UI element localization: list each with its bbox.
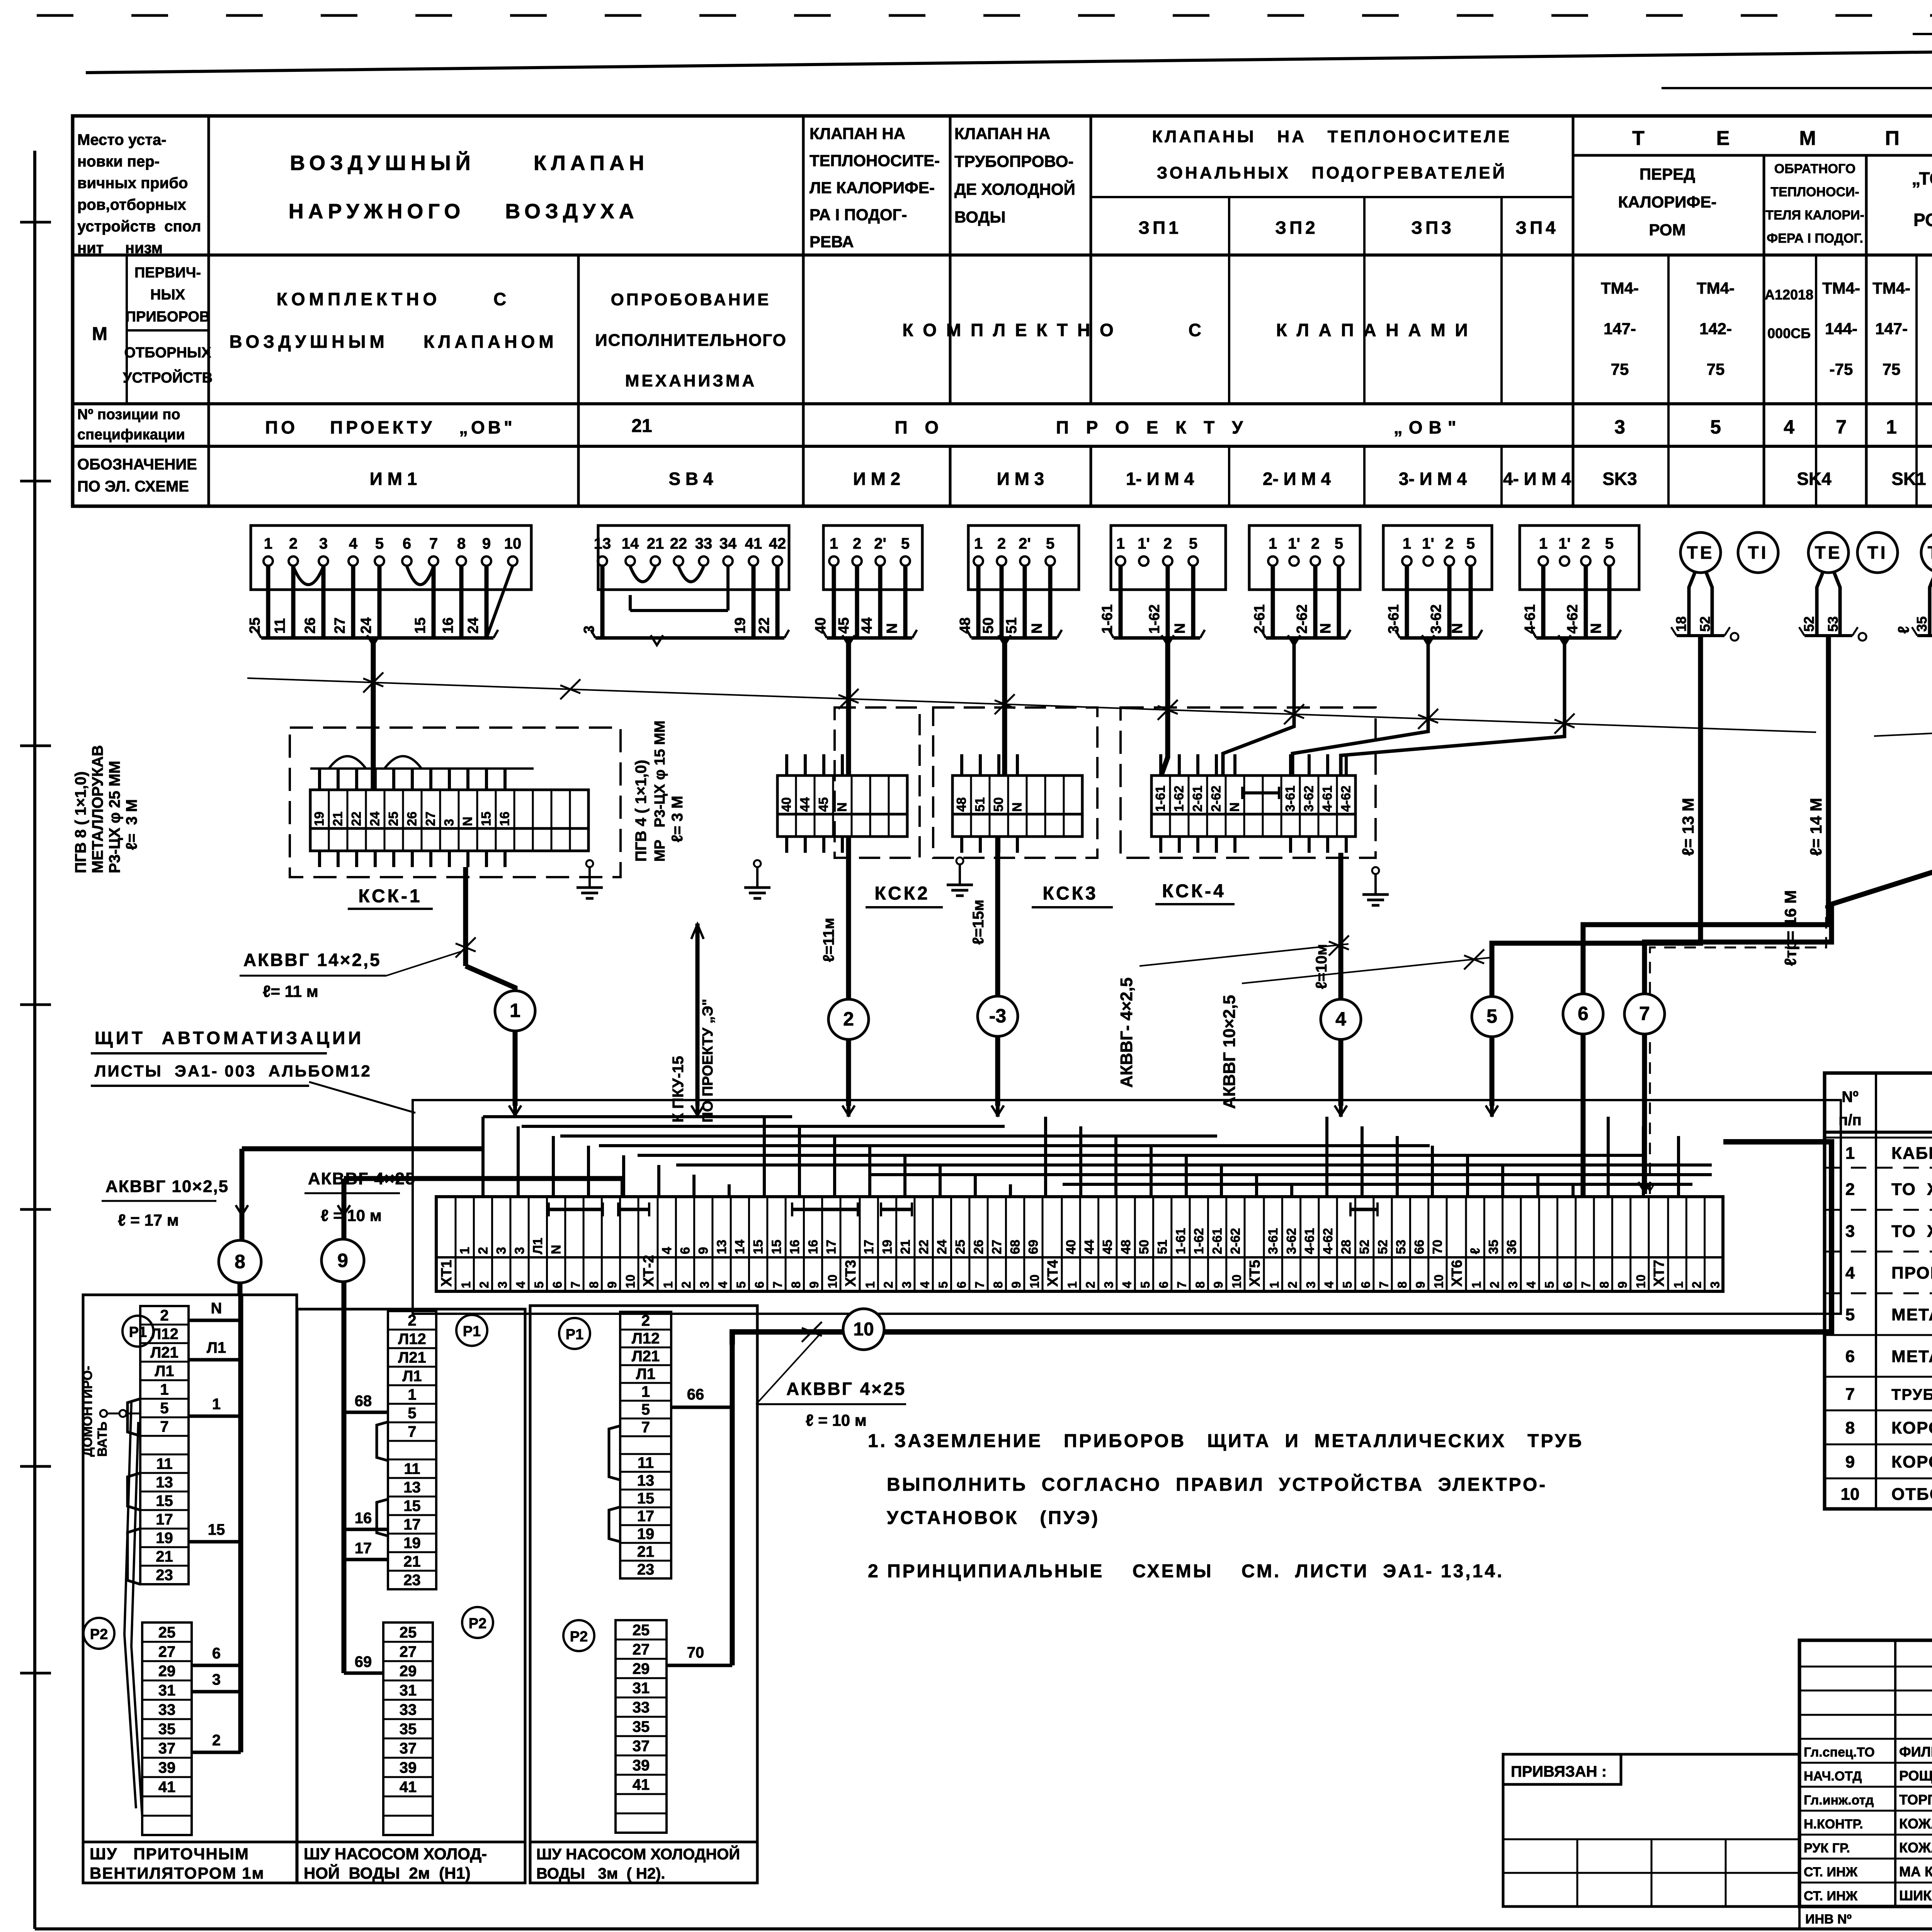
svg-text:9: 9	[605, 1281, 619, 1288]
svg-text:1: 1	[830, 535, 838, 552]
svg-text:16: 16	[498, 811, 512, 826]
cabinet2 upper terminal strip	[388, 1311, 436, 1589]
svg-text:ПРИБОРОВ: ПРИБОРОВ	[126, 309, 210, 325]
inventory number label	[1799, 1906, 1932, 1929]
svg-text:5: 5	[408, 1405, 416, 1422]
cable circle 3	[978, 996, 1018, 1036]
svg-text:2: 2	[679, 1281, 693, 1288]
svg-text:39: 39	[400, 1759, 417, 1776]
svg-text:3- И М 4: 3- И М 4	[1399, 469, 1467, 489]
svg-text:40: 40	[779, 797, 794, 812]
svg-text:МЕТАЛЛОРУКАВ ТУ22 2173-71 ,: МЕТАЛЛОРУКАВ ТУ22 2173-71 ,	[1891, 1347, 1932, 1366]
svg-text:ПО ЭЛ. СХЕМЕ: ПО ЭЛ. СХЕМЕ	[77, 478, 189, 495]
svg-text:1. ЗАЗЕМЛЕНИЕ ПРИБОРОВ ЩИТ: 1. ЗАЗЕМЛЕНИЕ ПРИБОРОВ ЩИТА И МЕТАЛЛИЧЕС…	[868, 1431, 1583, 1451]
svg-text:10: 10	[1432, 1274, 1446, 1288]
svg-text:142-: 142-	[1699, 320, 1732, 338]
svg-text:10: 10	[624, 1274, 638, 1288]
svg-text:М: М	[92, 324, 107, 344]
svg-text:ℓ= 3 М: ℓ= 3 М	[123, 799, 140, 850]
svg-text:ВОДЫ 3м ( Н2).: ВОДЫ 3м ( Н2).	[536, 1865, 665, 1882]
svg-text:66: 66	[1412, 1240, 1427, 1254]
cable 2 drop (l=11m)	[820, 837, 849, 1106]
svg-text:ТМ4-: ТМ4-	[1697, 279, 1735, 297]
instrument circles TE TI row	[1680, 532, 1932, 576]
ground at КСК2 left	[754, 860, 761, 867]
cable circle 6	[1563, 994, 1603, 1034]
terminal box 3 (valve ИМ2)	[813, 526, 922, 645]
svg-text:1: 1	[510, 1000, 520, 1021]
svg-text:7: 7	[429, 535, 438, 552]
svg-text:2: 2	[1083, 1281, 1097, 1288]
svg-text:22: 22	[756, 617, 772, 634]
notes text	[868, 1431, 1583, 1582]
svg-text:8: 8	[457, 535, 466, 552]
svg-text:1: 1	[160, 1381, 168, 1398]
cabinet1 lower terminal strip	[142, 1622, 192, 1835]
cabinet3 upper terminal strip	[620, 1312, 671, 1578]
svg-text:1: 1	[1403, 535, 1411, 552]
svg-text:15: 15	[751, 1240, 766, 1254]
svg-text:44: 44	[798, 797, 813, 812]
svg-text:2': 2'	[1019, 535, 1031, 552]
svg-text:5: 5	[1543, 1281, 1556, 1288]
svg-text:Р2: Р2	[469, 1616, 486, 1632]
svg-text:5: 5	[1486, 1005, 1497, 1027]
svg-text:3: 3	[1845, 1222, 1855, 1241]
svg-text:39: 39	[158, 1759, 176, 1776]
svg-text:13: 13	[156, 1474, 173, 1491]
svg-text:TE: TE	[1687, 543, 1714, 563]
svg-text:9: 9	[1413, 1281, 1427, 1288]
cabinet ШУ-2 (cold water pump 2м Н1)	[297, 1309, 525, 1883]
svg-text:41: 41	[633, 1776, 650, 1793]
svg-text:17: 17	[403, 1516, 421, 1533]
svg-text:2-61: 2-61	[1252, 604, 1268, 634]
svg-text:Л21: Л21	[398, 1349, 426, 1366]
svg-text:3-62: 3-62	[1428, 604, 1444, 634]
svg-text:-3: -3	[989, 1005, 1006, 1027]
svg-text:31: 31	[633, 1680, 650, 1697]
privyazan box	[1503, 1754, 1799, 1906]
svg-text:N: N	[549, 1245, 564, 1254]
svg-text:5: 5	[734, 1281, 748, 1288]
svg-text:7: 7	[1845, 1385, 1855, 1404]
svg-text:35: 35	[158, 1721, 176, 1738]
svg-text:66: 66	[687, 1386, 704, 1403]
svg-text:17: 17	[637, 1508, 655, 1525]
title block frame	[1799, 1640, 1932, 1906]
svg-text:3: 3	[442, 819, 457, 826]
cabinet3 jumper hooks	[609, 1426, 620, 1542]
svg-text:ℓ=15м: ℓ=15м	[970, 900, 987, 945]
svg-text:4: 4	[716, 1281, 730, 1288]
svg-text:13: 13	[403, 1479, 421, 1496]
svg-text:3: 3	[1102, 1281, 1116, 1288]
svg-text:ОПРОБОВАНИЕ: ОПРОБОВАНИЕ	[611, 290, 771, 309]
svg-text:Л12: Л12	[150, 1325, 179, 1342]
svg-text:2: 2	[1582, 535, 1590, 552]
svg-text:КСК3: КСК3	[1043, 883, 1098, 904]
svg-text:2-61: 2-61	[1190, 786, 1205, 812]
svg-text:16: 16	[440, 617, 456, 634]
svg-text:51: 51	[973, 797, 988, 812]
svg-text:КОЖАРИНОВА: КОЖАРИНОВА	[1899, 1840, 1932, 1855]
svg-text:35: 35	[1914, 616, 1930, 632]
svg-text:НЫХ: НЫХ	[150, 287, 185, 303]
svg-text:5: 5	[901, 535, 910, 552]
top table header texts	[77, 124, 1932, 257]
svg-text:11: 11	[272, 618, 288, 634]
svg-text:Место уста-: Место уста-	[77, 131, 167, 148]
cable 3 drop (l=15m)	[970, 837, 998, 1106]
svg-text:-75: -75	[1830, 360, 1853, 378]
TE sensor wire pairs with labels	[1671, 572, 1932, 641]
svg-text:31: 31	[400, 1682, 417, 1699]
terminal box 4 (valve ИМ3)	[957, 526, 1079, 645]
svg-text:1: 1	[1845, 1144, 1855, 1163]
svg-text:ХТ3: ХТ3	[843, 1260, 859, 1287]
svg-text:ИНВ Nº: ИНВ Nº	[1805, 1912, 1852, 1927]
svg-text:РОЩИН: РОЩИН	[1899, 1768, 1932, 1784]
svg-text:25: 25	[386, 811, 401, 826]
svg-text:TE: TE	[1815, 543, 1842, 563]
cabinet2 relay P2	[462, 1607, 493, 1638]
svg-text:52: 52	[1357, 1240, 1372, 1254]
svg-text:9: 9	[1616, 1281, 1629, 1288]
svg-text:ВОДЫ: ВОДЫ	[954, 208, 1005, 226]
svg-text:УСТАНОВОК (ПУЭ): УСТАНОВОК (ПУЭ)	[887, 1508, 1100, 1528]
svg-text:9: 9	[696, 1247, 711, 1254]
svg-text:Гл.инж.отд: Гл.инж.отд	[1804, 1793, 1874, 1808]
svg-text:3-61: 3-61	[1386, 604, 1402, 634]
svg-text:ШУ НАСОСОМ ХОЛОДНОЙ: ШУ НАСОСОМ ХОЛОДНОЙ	[536, 1845, 740, 1863]
svg-text:ℓ=10м: ℓ=10м	[1313, 944, 1330, 989]
svg-text:1-62: 1-62	[1172, 786, 1187, 812]
svg-text:4-62: 4-62	[1339, 786, 1354, 812]
svg-text:ДОМОНТИРО-: ДОМОНТИРО-	[80, 1366, 95, 1457]
svg-text:6: 6	[678, 1247, 692, 1254]
junction box КСК-4	[1121, 638, 1565, 904]
svg-text:27: 27	[332, 617, 348, 634]
svg-text:21: 21	[647, 535, 664, 552]
svg-text:МР Р3-ЦХ φ 15 ММ: МР Р3-ЦХ φ 15 ММ	[652, 721, 668, 862]
svg-text:TE: TE	[1928, 543, 1932, 563]
svg-text:5: 5	[1335, 535, 1343, 552]
cabinet2 jumper hooks	[377, 1422, 388, 1536]
svg-text:9: 9	[1845, 1452, 1855, 1471]
junction box КСК3	[933, 638, 1113, 907]
svg-text:ЗП3: ЗП3	[1411, 218, 1454, 238]
svg-text:8: 8	[1395, 1281, 1409, 1288]
svg-text:33: 33	[633, 1699, 650, 1716]
svg-text:000СБ: 000СБ	[1767, 325, 1811, 341]
svg-text:АКВВГ 4×25: АКВВГ 4×25	[786, 1379, 906, 1399]
svg-text:10: 10	[1028, 1274, 1042, 1288]
svg-text:2: 2	[1845, 1180, 1855, 1199]
svg-text:N: N	[884, 623, 900, 634]
svg-text:ПО ПРОЕКТУ „Э": ПО ПРОЕКТУ „Э"	[700, 999, 716, 1122]
cable circle 9	[321, 1239, 364, 1282]
svg-text:ВОЗДУШНЫМ КЛАПАНОМ: ВОЗДУШНЫМ КЛАПАНОМ	[229, 332, 557, 352]
svg-text:50: 50	[992, 797, 1006, 812]
svg-text:23: 23	[403, 1571, 421, 1588]
svg-text:2: 2	[476, 1247, 490, 1254]
svg-text:8: 8	[789, 1281, 803, 1288]
svg-text:35: 35	[1486, 1240, 1501, 1254]
svg-text:П О П Р О Е К Т У: П О П Р О Е К Т У „ОВ"	[895, 417, 1462, 437]
svg-text:7: 7	[569, 1281, 583, 1288]
svg-text:19: 19	[880, 1240, 895, 1254]
svg-text:69: 69	[355, 1653, 372, 1670]
svg-text:14: 14	[733, 1240, 747, 1254]
svg-text:48: 48	[957, 617, 973, 634]
svg-text:ПРОВОД МЕДНЫЙ ГОСТ 6323-: ПРОВОД МЕДНЫЙ ГОСТ 6323-79,	[1891, 1263, 1932, 1282]
svg-text:ОБРАТНОГО: ОБРАТНОГО	[1774, 162, 1855, 176]
svg-text:устройств спол: устройств спол	[77, 218, 201, 235]
svg-text:51: 51	[1155, 1240, 1170, 1254]
cabinet1 riser and taps	[189, 1283, 241, 1752]
svg-text:РЕВА: РЕВА	[810, 233, 854, 251]
svg-text:8: 8	[587, 1281, 601, 1288]
svg-text:2: 2	[881, 1281, 895, 1288]
wire to ПКУ-15	[670, 923, 716, 1122]
svg-text:5: 5	[1605, 535, 1614, 552]
svg-text:N: N	[835, 802, 850, 812]
svg-text:75: 75	[1707, 360, 1725, 378]
svg-text:7: 7	[1175, 1281, 1189, 1288]
cabinet ШУ-3 (cold water pump 3м Н2)	[530, 1306, 757, 1883]
cabinet1 relay P1	[122, 1316, 153, 1347]
svg-text:13: 13	[637, 1472, 655, 1489]
svg-text:КЛАПАНЫ НА ТЕПЛОНОСИТЕЛЕ: КЛАПАНЫ НА ТЕПЛОНОСИТЕЛЕ	[1152, 127, 1512, 146]
svg-text:5: 5	[1340, 1281, 1354, 1288]
svg-text:6: 6	[1845, 1347, 1855, 1366]
svg-text:29: 29	[633, 1660, 650, 1677]
svg-text:33: 33	[158, 1701, 176, 1718]
svg-text:15: 15	[156, 1492, 173, 1509]
svg-text:39: 39	[633, 1757, 650, 1774]
svg-text:21: 21	[403, 1553, 421, 1570]
svg-text:ТМ4-: ТМ4-	[1601, 279, 1639, 297]
svg-text:11: 11	[638, 1454, 654, 1471]
svg-text:10: 10	[1841, 1485, 1860, 1504]
svg-text:спецификации: спецификации	[77, 427, 185, 443]
svg-text:7: 7	[771, 1281, 785, 1288]
svg-text:7: 7	[973, 1281, 987, 1288]
svg-text:N: N	[1010, 802, 1025, 812]
svg-text:новки пер-: новки пер-	[77, 153, 160, 170]
svg-text:Е: Е	[1716, 127, 1730, 150]
svg-text:2: 2	[212, 1732, 221, 1749]
svg-text:18: 18	[1673, 616, 1689, 632]
svg-text:2: 2	[408, 1312, 416, 1329]
svg-text:1': 1'	[1288, 535, 1300, 552]
cable circle 4	[1321, 999, 1361, 1039]
svg-text:1: 1	[1469, 1281, 1483, 1288]
svg-text:ТЕЛЯ КАЛОРИ-: ТЕЛЯ КАЛОРИ-	[1765, 208, 1864, 223]
svg-text:27: 27	[990, 1240, 1004, 1254]
svg-text:2- И М 4: 2- И М 4	[1263, 469, 1331, 489]
svg-text:70: 70	[687, 1644, 704, 1661]
svg-text:ХТ7: ХТ7	[1651, 1260, 1667, 1287]
svg-text:25: 25	[633, 1622, 650, 1639]
svg-text:ВОЗДУХА: ВОЗДУХА	[505, 200, 638, 223]
svg-text:Nº: Nº	[1842, 1088, 1859, 1105]
svg-text:ВЕНТИЛЯТОРОМ 1м: ВЕНТИЛЯТОРОМ 1м	[90, 1864, 265, 1882]
svg-text:N: N	[1029, 623, 1045, 634]
svg-text:нит низм: нит низм	[77, 240, 163, 257]
svg-text:8: 8	[1845, 1418, 1855, 1437]
svg-text:ХТ4: ХТ4	[1045, 1260, 1061, 1287]
cable 7 run (TE ltr=16m with pipe)	[1638, 636, 1932, 1194]
svg-text:1: 1	[457, 1247, 472, 1254]
cable circle 1	[495, 991, 535, 1031]
svg-text:3-61: 3-61	[1283, 786, 1298, 812]
svg-text:9: 9	[337, 1250, 348, 1271]
cabinet3 lower terminal strip	[616, 1620, 667, 1833]
svg-text:ℓ = 10 м: ℓ = 10 м	[321, 1206, 382, 1225]
svg-text:РОМ: РОМ	[1649, 221, 1685, 239]
svg-text:29: 29	[400, 1663, 417, 1680]
svg-text:1: 1	[661, 1281, 675, 1288]
svg-text:ЩИТ АВТОМАТИЗАЦИИ: ЩИТ АВТОМАТИЗАЦИИ	[95, 1028, 364, 1048]
svg-text:КОРОБКА СОЕДИНИТЕЛЬНАЯ: КОРОБКА СОЕДИНИТЕЛЬНАЯ	[1891, 1452, 1932, 1471]
svg-text:52: 52	[1801, 616, 1817, 632]
svg-text:5: 5	[1710, 416, 1721, 438]
svg-text:РОСЫ": РОСЫ"	[1913, 210, 1932, 230]
svg-text:N: N	[1318, 623, 1334, 634]
svg-text:6: 6	[403, 535, 411, 552]
svg-text:9: 9	[482, 535, 491, 552]
svg-text:68: 68	[355, 1393, 372, 1410]
svg-text:Л1: Л1	[531, 1238, 545, 1254]
svg-text:52: 52	[1376, 1240, 1390, 1254]
top table row 2 texts	[92, 265, 1932, 390]
cabinet2 relay P1	[456, 1315, 487, 1346]
svg-text:ЛЕ КАЛОРИФЕ-: ЛЕ КАЛОРИФЕ-	[810, 179, 935, 197]
svg-text:7: 7	[1836, 416, 1847, 438]
svg-text:11: 11	[404, 1460, 420, 1477]
terminal box 2	[581, 526, 789, 645]
panel terminal strip XT1-XT7	[436, 1197, 1723, 1291]
svg-text:Nº позиции по: Nº позиции по	[77, 406, 180, 423]
svg-text:7: 7	[160, 1418, 168, 1435]
svg-text:5: 5	[936, 1281, 950, 1288]
svg-text:4: 4	[1784, 416, 1794, 438]
svg-text:2 ПРИНЦИПИАЛЬНЫЕ СХЕМЫ С: 2 ПРИНЦИПИАЛЬНЫЕ СХЕМЫ СМ. ЛИСТИ ЭА1- 13…	[868, 1561, 1504, 1582]
svg-text:НОЙ ВОДЫ 2м (Н1): НОЙ ВОДЫ 2м (Н1)	[304, 1864, 471, 1882]
svg-text:ℓ: ℓ	[1895, 626, 1912, 634]
svg-text:41: 41	[400, 1779, 417, 1796]
svg-text:ℓ= 14 М: ℓ= 14 М	[1807, 798, 1825, 856]
svg-text:НАРУЖНОГО: НАРУЖНОГО	[289, 200, 465, 223]
cabinet1 demontage note	[80, 1366, 140, 1457]
cable 4 drop (l=10m)	[1313, 853, 1341, 1106]
svg-text:33: 33	[400, 1701, 417, 1718]
svg-text:5: 5	[641, 1401, 650, 1418]
svg-text:ЗОНАЛЬНЫХ ПОДОГРЕВАТЕЛЕЙ: ЗОНАЛЬНЫХ ПОДОГРЕВАТЕЛЕЙ	[1157, 163, 1507, 182]
svg-text:6: 6	[954, 1281, 968, 1288]
svg-text:ℓ= 3 М: ℓ= 3 М	[669, 796, 686, 842]
svg-text:9: 9	[1009, 1281, 1023, 1288]
ground at КСК3 left	[956, 857, 963, 864]
svg-text:2: 2	[843, 1008, 854, 1030]
cable circle 10	[843, 1309, 884, 1350]
cable 9 run (АКВВГ 4х25)	[304, 1169, 622, 1239]
svg-text:19: 19	[732, 617, 748, 634]
svg-text:2: 2	[1311, 535, 1320, 552]
cabinet3 riser and taps	[667, 1345, 732, 1665]
svg-text:2-62: 2-62	[1209, 786, 1224, 812]
svg-text:2: 2	[1445, 535, 1454, 552]
svg-text:КОРОБКА СОЕДИНИТЕЛЬНАЯ: КОРОБКА СОЕДИНИТЕЛЬНАЯ	[1891, 1418, 1932, 1437]
svg-text:24: 24	[368, 811, 383, 826]
svg-text:4: 4	[1322, 1281, 1336, 1288]
svg-text:8: 8	[991, 1281, 1005, 1288]
svg-text:ТЕПЛОНОСИ-: ТЕПЛОНОСИ-	[1770, 185, 1859, 199]
svg-text:25: 25	[953, 1240, 968, 1254]
svg-text:25: 25	[158, 1624, 176, 1641]
svg-text:МЕХАНИЗМА: МЕХАНИЗМА	[625, 371, 757, 390]
svg-text:52: 52	[1697, 616, 1713, 632]
svg-text:КСК-1: КСК-1	[358, 886, 422, 906]
svg-text:4: 4	[660, 1247, 674, 1254]
svg-text:ХТ-2: ХТ-2	[641, 1255, 657, 1287]
svg-text:КЛАПАН НА: КЛАПАН НА	[810, 124, 905, 143]
automation panel box (Щит автоматизации)	[91, 1028, 1841, 1314]
svg-text:СТ. ИНЖ: СТ. ИНЖ	[1804, 1865, 1858, 1879]
svg-text:ℓ= 11 м: ℓ= 11 м	[263, 982, 318, 1000]
cable 5 run (TE l=13m)	[1492, 636, 1701, 1106]
cabinet3 relay P2	[563, 1620, 594, 1651]
svg-text:АКВВГ 10×2,5: АКВВГ 10×2,5	[1220, 995, 1239, 1109]
svg-text:53: 53	[1825, 616, 1841, 632]
svg-text:2-62: 2-62	[1228, 1228, 1243, 1254]
steel pipe leader line right (ПГВ 4 1x1, Тр 26х16)	[1874, 684, 1932, 737]
svg-text:34: 34	[719, 535, 737, 552]
svg-text:19: 19	[156, 1529, 173, 1546]
cable 10 heavy run along panel bottom	[732, 1142, 1832, 1345]
svg-text:N: N	[1172, 623, 1188, 634]
svg-text:51: 51	[1003, 617, 1020, 634]
svg-text:8: 8	[235, 1251, 245, 1272]
svg-text:48: 48	[1119, 1240, 1133, 1254]
svg-text:6: 6	[752, 1281, 766, 1288]
svg-text:ХТ5: ХТ5	[1247, 1260, 1263, 1287]
junction box КСК2	[777, 638, 943, 907]
svg-text:ИСПОЛНИТЕЛЬНОГО: ИСПОЛНИТЕЛЬНОГО	[595, 331, 787, 350]
svg-text:37: 37	[633, 1738, 650, 1755]
svg-text:1: 1	[1886, 416, 1897, 438]
svg-text:16: 16	[806, 1240, 820, 1254]
svg-text:40: 40	[1064, 1240, 1078, 1254]
svg-text:27: 27	[158, 1643, 176, 1660]
svg-text:М: М	[1799, 127, 1816, 150]
svg-text:3: 3	[495, 1281, 509, 1288]
svg-text:5: 5	[375, 535, 384, 552]
svg-text:6: 6	[550, 1281, 564, 1288]
svg-text:АКВВГ- 4×2,5: АКВВГ- 4×2,5	[1117, 978, 1136, 1088]
svg-text:42: 42	[769, 535, 786, 552]
svg-text:4: 4	[514, 1281, 528, 1288]
cable circle 7	[1624, 994, 1665, 1034]
svg-text:3-61: 3-61	[1266, 1228, 1281, 1254]
svg-text:10: 10	[1634, 1274, 1648, 1288]
svg-text:21: 21	[331, 811, 345, 826]
svg-text:17: 17	[824, 1240, 839, 1254]
panel internal wiring bundle	[483, 1105, 1712, 1197]
svg-text:15: 15	[479, 811, 494, 826]
